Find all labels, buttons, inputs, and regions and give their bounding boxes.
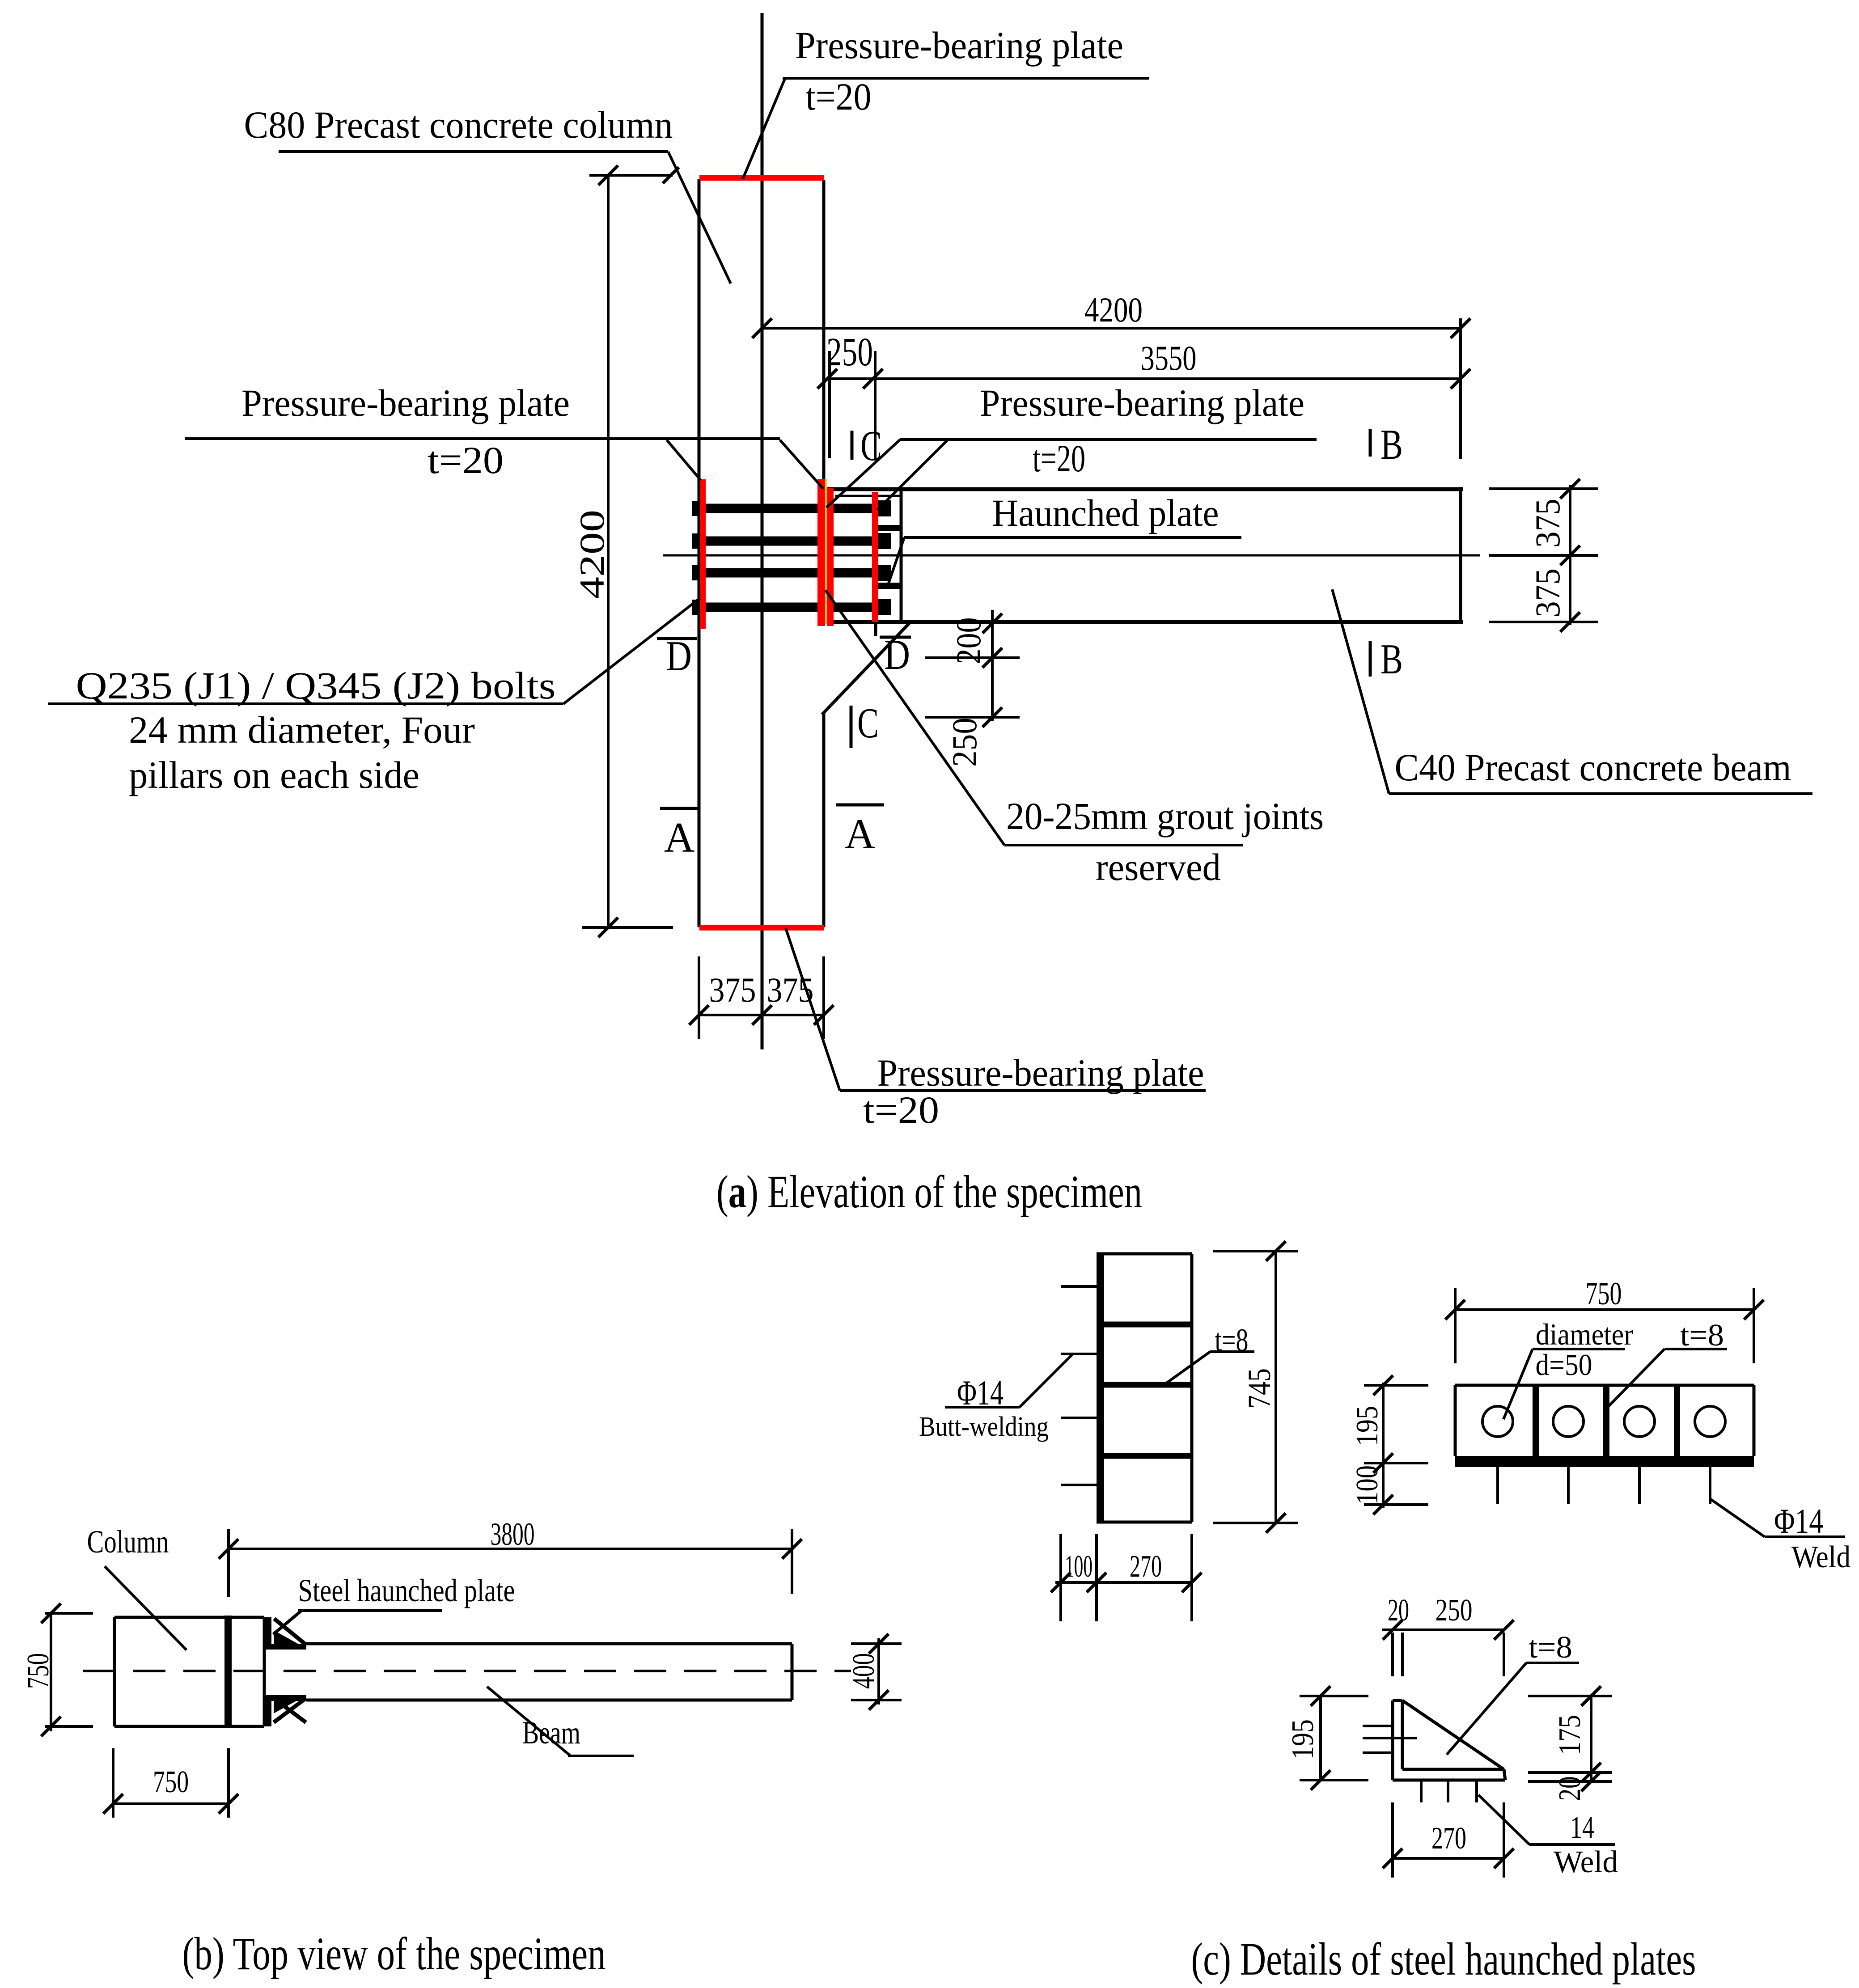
svg-text:D: D: [884, 631, 910, 678]
svg-text:(b) Top view of the specimen: (b) Top view of the specimen: [182, 1928, 606, 1980]
svg-text:100: 100: [1350, 1465, 1385, 1505]
svg-text:A: A: [845, 810, 876, 858]
svg-text:(a) Elevation of the specimen: (a) Elevation of the specimen: [716, 1166, 1142, 1218]
svg-text:(c) Details of steel haunched: (c) Details of steel haunched plates: [1191, 1933, 1696, 1985]
svg-text:175: 175: [1553, 1715, 1587, 1755]
svg-text:reserved: reserved: [1096, 846, 1221, 888]
svg-text:D: D: [666, 632, 692, 680]
svg-text:Beam: Beam: [522, 1715, 580, 1751]
svg-text:t=20: t=20: [428, 439, 504, 482]
svg-text:750: 750: [1586, 1276, 1622, 1311]
svg-text:200: 200: [949, 618, 988, 664]
svg-text:250: 250: [1436, 1593, 1473, 1628]
svg-text:Pressure-bearing plate: Pressure-bearing plate: [795, 24, 1123, 67]
svg-text:375: 375: [709, 970, 756, 1009]
svg-text:Pressure-bearing plate: Pressure-bearing plate: [241, 381, 570, 424]
svg-text:t=20: t=20: [863, 1088, 939, 1131]
svg-text:270: 270: [1431, 1821, 1466, 1856]
svg-text:Butt-welding: Butt-welding: [919, 1412, 1049, 1442]
svg-text:d=50: d=50: [1536, 1348, 1592, 1382]
svg-text:A: A: [664, 814, 695, 861]
svg-text:Weld: Weld: [1791, 1540, 1851, 1574]
svg-text:400: 400: [847, 1653, 881, 1689]
svg-text:3550: 3550: [1141, 338, 1197, 377]
svg-text:t=20: t=20: [1033, 437, 1085, 480]
svg-text:B: B: [1380, 421, 1403, 468]
svg-text:C: C: [857, 699, 879, 747]
svg-text:750: 750: [153, 1765, 189, 1799]
svg-text:3800: 3800: [491, 1516, 535, 1552]
svg-text:375: 375: [1528, 568, 1567, 618]
svg-text:250: 250: [945, 718, 984, 767]
svg-text:Φ14: Φ14: [1774, 1502, 1823, 1540]
svg-text:20: 20: [1553, 1777, 1587, 1801]
svg-text:C: C: [860, 422, 882, 470]
svg-text:750: 750: [21, 1653, 55, 1689]
svg-text:24 mm diameter, Four: 24 mm diameter, Four: [129, 708, 475, 751]
svg-text:Pressure-bearing plate: Pressure-bearing plate: [980, 381, 1304, 424]
svg-text:Column: Column: [87, 1524, 169, 1560]
svg-text:4200: 4200: [572, 510, 611, 599]
svg-text:195: 195: [1350, 1406, 1385, 1446]
svg-text:t=20: t=20: [806, 75, 872, 118]
svg-text:Haunched plate: Haunched plate: [992, 491, 1219, 534]
svg-text:375: 375: [1528, 499, 1567, 548]
svg-text:270: 270: [1130, 1549, 1162, 1584]
svg-text:Steel haunched plate: Steel haunched plate: [298, 1573, 515, 1608]
svg-text:B: B: [1380, 635, 1403, 683]
svg-text:C80 Precast concrete column: C80 Precast concrete column: [244, 103, 673, 146]
svg-text:t=8: t=8: [1680, 1318, 1724, 1353]
svg-text:745: 745: [1241, 1368, 1277, 1409]
svg-text:195: 195: [1286, 1719, 1320, 1760]
svg-text:100: 100: [1065, 1549, 1093, 1584]
svg-text:4200: 4200: [1084, 290, 1143, 329]
svg-text:14: 14: [1570, 1810, 1594, 1845]
svg-text:Weld: Weld: [1554, 1845, 1618, 1879]
svg-text:t=8: t=8: [1529, 1630, 1572, 1665]
svg-text:250: 250: [826, 330, 873, 374]
svg-text:pillars on each side: pillars on each side: [129, 753, 419, 796]
svg-text:diameter: diameter: [1536, 1317, 1633, 1351]
svg-text:20-25mm grout joints: 20-25mm grout joints: [1006, 795, 1324, 837]
svg-text:C40 Precast concrete beam: C40 Precast concrete beam: [1395, 746, 1791, 789]
svg-text:Pressure-bearing plate: Pressure-bearing plate: [877, 1051, 1204, 1094]
svg-text:Q235 (J1) / Q345 (J2) bolts: Q235 (J1) / Q345 (J2) bolts: [76, 664, 556, 707]
